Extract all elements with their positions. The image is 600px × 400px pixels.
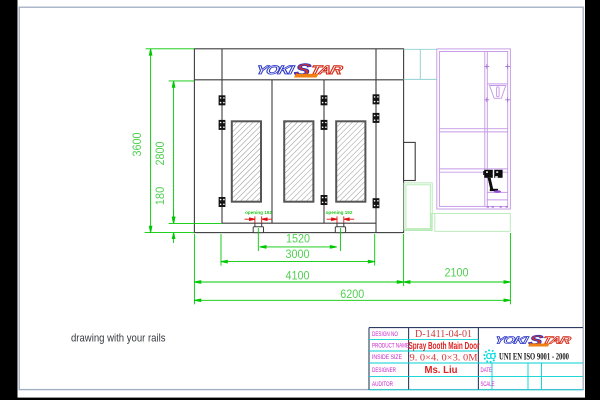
svg-text:opening 192: opening 192 [245,210,272,215]
svg-text:180: 180 [153,186,167,205]
hinges on door edge x=222 [219,95,226,207]
bottom footing dashes [487,206,509,208]
dim 3000 [221,234,375,266]
grate line 2 [487,199,508,201]
svg-text:9. 0×4. 0×3. 0M: 9. 0×4. 0×3. 0M [410,353,479,364]
band divider right [375,49,377,80]
title block cyan grid [369,340,583,390]
svg-text:D-1411-04-01: D-1411-04-01 [415,329,472,340]
svg-text:SCALE: SCALE [481,382,495,388]
dim 1520 [258,228,340,251]
svg-text:1520: 1520 [286,232,310,246]
dim 4100 [194,234,403,304]
top band bottom line [194,79,403,81]
divider 2 double [439,168,507,170]
dim 180 vertical [172,210,175,243]
pale green unit box inner [406,185,430,229]
funnel capsule [497,87,500,97]
svg-text:Spray Booth Main Door: Spray Booth Main Door [409,341,480,352]
dim 6200 [194,299,510,302]
svg-text:Ms. Liu: Ms. Liu [425,365,458,376]
dim 2100 [404,233,511,304]
svg-text:DATE: DATE [481,368,493,374]
grate line 1 [487,191,508,193]
door divider 1 [271,80,273,223]
door edge left [221,80,223,223]
cyan projection lines [404,49,437,79]
black bar bottom [0,398,600,400]
booth outline [194,49,403,233]
title labels magenta [372,332,495,388]
door bottom line [222,222,376,224]
control box on right wall [404,142,416,180]
pale green unit box outer [404,183,432,231]
door divider 2 [323,80,325,223]
svg-text:4100: 4100 [286,269,310,283]
inner column line b [486,52,488,207]
svg-text:AUDITOR: AUDITOR [372,382,394,388]
logo in title block [494,332,574,348]
svg-text:DESIGN NO: DESIGN NO [372,332,398,338]
pale green base lines lower right [404,213,511,231]
opening label left [245,210,272,215]
svg-text:2100: 2100 [445,266,469,280]
logo on booth band [255,61,345,80]
hinges on door divider x=324 [321,95,328,205]
window door3 [336,121,365,201]
red opening arrows left [245,216,273,223]
fan white slots [486,171,498,177]
foot caster right [335,223,345,232]
door edge right [375,80,377,233]
hinges on door edge x=376 [373,94,380,208]
dim 2800 vertical [169,81,222,224]
inner column line a [484,52,486,207]
svg-text:drawing with your rails: drawing with your rails [71,333,166,345]
red opening arrows right [327,216,355,223]
side view inner wall [439,52,507,207]
dim 3600 vertical [145,49,195,233]
svg-text:3000: 3000 [286,247,310,261]
svg-text:DESIGNER: DESIGNER [372,368,397,374]
svg-text:6200: 6200 [340,287,364,301]
funnel hopper [490,86,506,99]
violet blob under fan [494,190,501,193]
CCC badge [483,349,496,363]
side view outer wall [437,49,511,209]
opening label right [326,210,353,215]
cross marks [484,64,510,102]
svg-text:2800: 2800 [153,141,167,165]
svg-text:INSIDE SIZE: INSIDE SIZE [372,355,402,361]
window door2 [284,121,313,201]
svg-text:UNI EN ISO 9001 - 2000: UNI EN ISO 9001 - 2000 [499,351,569,361]
fan unit black [483,170,502,191]
black bar left [0,0,18,400]
title block dark borders [369,328,583,390]
band divider left [221,49,223,80]
foot caster left [253,223,263,232]
hinge pin dots [220,96,379,206]
svg-text:PRODUCT NAME: PRODUCT NAME [372,344,409,350]
black bar right [585,0,600,400]
divider 1 double [439,128,507,130]
window door1 [232,121,261,201]
funnel ceiling line [487,83,507,85]
svg-text:3600: 3600 [130,132,144,156]
svg-text:opening 192: opening 192 [326,210,353,215]
